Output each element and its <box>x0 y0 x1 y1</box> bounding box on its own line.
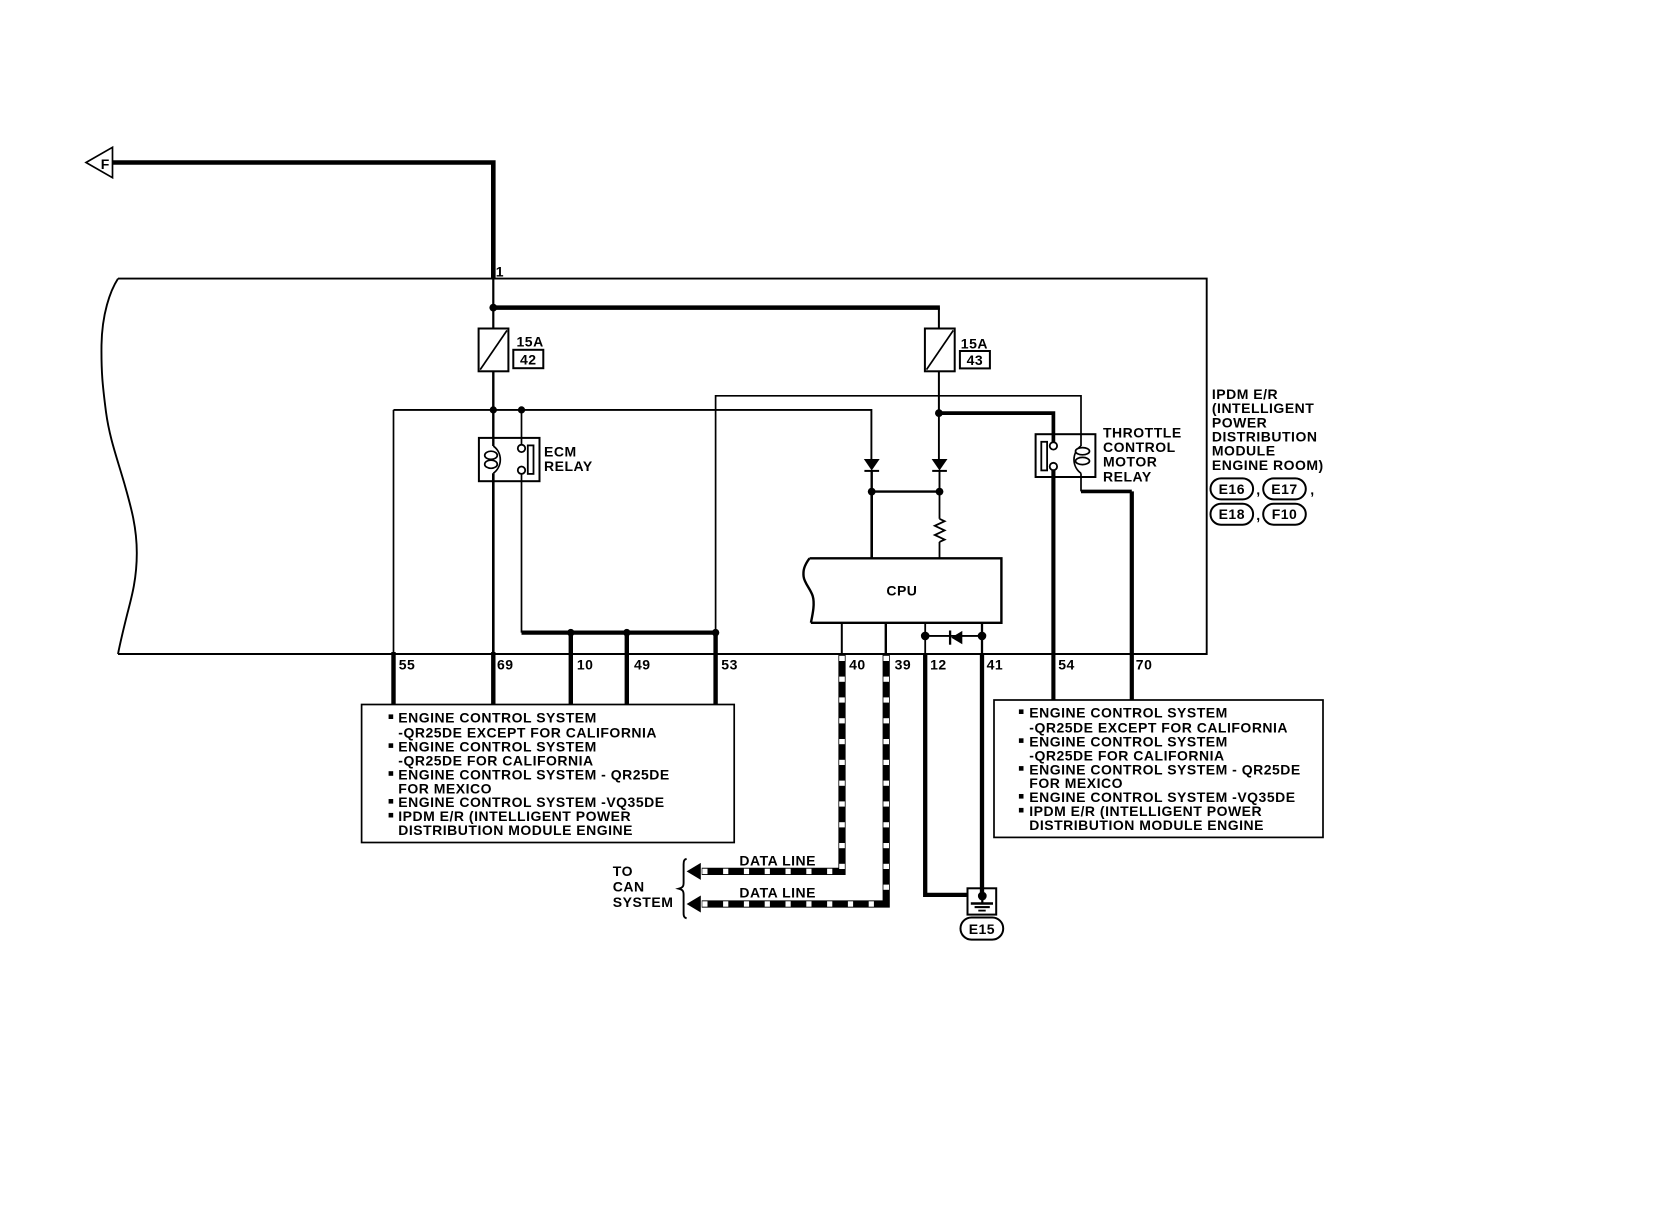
ground box E15 <box>968 888 997 914</box>
junction dot pin49 <box>623 629 630 636</box>
wire pin1 to fuse 42 <box>492 279 494 329</box>
svg-text:F10: F10 <box>1272 506 1298 522</box>
note box left text <box>389 709 670 838</box>
junction dot at fuse bus <box>489 304 497 312</box>
note box right text <box>1019 704 1301 833</box>
wire pin 53 <box>713 633 717 705</box>
wire D2 to junction <box>939 471 941 492</box>
wire battery feed from F to pin 1 <box>113 163 494 280</box>
svg-text:1: 1 <box>496 264 504 280</box>
junction dot throttle feed <box>935 409 943 417</box>
svg-text:DATA LINE: DATA LINE <box>739 853 816 869</box>
svg-text:69: 69 <box>497 656 514 672</box>
svg-text:40: 40 <box>849 656 866 672</box>
svg-text:43: 43 <box>967 352 984 368</box>
relay ECM <box>479 438 540 481</box>
svg-text:E16: E16 <box>1219 481 1245 497</box>
wire ECM contact down <box>521 474 523 633</box>
svg-text:SYSTEM: SYSTEM <box>613 894 674 910</box>
wire rail to ECM contact <box>521 410 523 445</box>
wire pin 10 <box>569 633 573 705</box>
wire rail y410 to diode D1 <box>394 410 872 460</box>
junction dot 41 <box>978 632 987 641</box>
wire fuse bus <box>493 305 940 310</box>
svg-text:42: 42 <box>520 352 537 368</box>
junction dot D1 <box>868 488 876 496</box>
wire bus to fuse 43 <box>938 308 940 329</box>
svg-text:E15: E15 <box>969 921 995 937</box>
connector arrow F <box>86 147 113 177</box>
junction dot 12 <box>921 632 930 641</box>
label box 42 <box>513 350 543 368</box>
svg-text:41: 41 <box>987 656 1004 672</box>
svg-text:,: , <box>1310 482 1314 498</box>
relay throttle control motor <box>1036 434 1096 477</box>
junction dot pin53 <box>712 629 719 636</box>
CPU box U1 <box>803 558 1001 623</box>
resistor R1 <box>935 492 945 559</box>
connector E18 <box>1211 504 1254 525</box>
wire throttle coil to pin 70 <box>1081 473 1132 700</box>
wire CPU pin 39 <box>885 623 887 654</box>
junction dot contact feed <box>518 406 525 413</box>
svg-text:10: 10 <box>577 656 594 672</box>
wire fuse 42 to ECM relay coil <box>492 371 494 446</box>
junction dot pin10 <box>567 629 574 636</box>
svg-text:CONTROL: CONTROL <box>1103 439 1176 455</box>
note box left <box>362 705 735 843</box>
svg-text:TO: TO <box>613 863 633 879</box>
IPDM E/R module box <box>101 279 1206 654</box>
wire pin 39 CAN data line <box>702 654 889 907</box>
wire pin 49 <box>625 633 629 705</box>
label ECM RELAY <box>544 443 593 474</box>
wire pin 41 to ground <box>980 654 984 896</box>
svg-text:RELAY: RELAY <box>1103 469 1152 485</box>
svg-text:E18: E18 <box>1219 506 1245 522</box>
diode D2 <box>932 459 947 471</box>
svg-text:12: 12 <box>930 656 947 672</box>
svg-text:15A: 15A <box>517 334 544 350</box>
svg-text:ECM: ECM <box>544 443 577 459</box>
wire CPU pin 41 <box>981 623 983 654</box>
fuse 42 <box>479 329 509 372</box>
svg-text:DATA LINE: DATA LINE <box>739 884 816 900</box>
label box 43 <box>960 351 990 368</box>
svg-text:DISTRIBUTION MODULE ENGINE: DISTRIBUTION MODULE ENGINE <box>1029 817 1264 833</box>
label TO CAN SYSTEM <box>613 863 674 910</box>
junction dot coil feed <box>490 406 497 413</box>
label IPDM E/R <box>1212 386 1324 473</box>
wire ECM coil to pin 69 <box>492 473 495 704</box>
wire pin 55 <box>393 410 395 705</box>
arrow data line 1 <box>687 863 701 880</box>
svg-text:DISTRIBUTION MODULE ENGINE: DISTRIBUTION MODULE ENGINE <box>398 822 633 838</box>
wire throttle contact to pin 54 <box>1051 470 1055 700</box>
svg-text:ENGINE CONTROL SYSTEM: ENGINE CONTROL SYSTEM <box>1029 704 1227 720</box>
wire rail y632 <box>522 630 716 634</box>
note box right <box>994 700 1323 837</box>
svg-text:ENGINE ROOM): ENGINE ROOM) <box>1212 457 1324 473</box>
wire junction to throttle contact <box>939 413 1054 445</box>
svg-text:54: 54 <box>1058 656 1075 672</box>
svg-text:CAN: CAN <box>613 879 645 895</box>
wire junction to diode D2 <box>938 413 940 459</box>
wire fuse 43 to throttle contact junction <box>938 371 940 413</box>
diode D3 <box>950 631 962 645</box>
diode D1 <box>864 459 879 471</box>
svg-text:49: 49 <box>634 656 651 672</box>
junction dot D2 <box>936 488 944 496</box>
svg-text:E17: E17 <box>1271 481 1297 497</box>
fuse 43 <box>925 329 955 372</box>
wire link 12-41 <box>925 635 982 637</box>
svg-text:53: 53 <box>721 656 738 672</box>
svg-text:ENGINE CONTROL SYSTEM: ENGINE CONTROL SYSTEM <box>398 709 596 725</box>
connector E15 <box>961 918 1004 940</box>
wire CPU pin 40 <box>841 623 843 654</box>
wire diode junction rail <box>872 490 940 492</box>
svg-text:55: 55 <box>399 656 416 672</box>
wire riser to throttle relay coil <box>716 396 1081 633</box>
wire D1 junction to CPU <box>870 492 873 559</box>
connector E17 <box>1263 478 1306 499</box>
label THROTTLE CONTROL MOTOR RELAY <box>1103 425 1182 485</box>
wire CPU pin 12 <box>924 623 926 654</box>
arrow data line 2 <box>687 896 701 913</box>
svg-text:,: , <box>1256 482 1260 498</box>
connector F10 <box>1263 504 1306 525</box>
svg-text:CPU: CPU <box>886 582 917 598</box>
svg-text:RELAY: RELAY <box>544 458 593 474</box>
wire pin 12 to ground <box>925 654 967 895</box>
svg-text:MOTOR: MOTOR <box>1103 454 1157 470</box>
wire pin 40 CAN data line <box>702 654 845 874</box>
svg-text:,: , <box>1256 507 1260 523</box>
ground symbol <box>971 892 993 911</box>
svg-text:F: F <box>101 156 110 172</box>
svg-text:15A: 15A <box>961 336 988 352</box>
svg-text:39: 39 <box>895 656 912 672</box>
wire D1 to junction <box>871 471 873 492</box>
brace to CAN system <box>679 859 687 919</box>
connector E16 <box>1211 478 1254 499</box>
svg-text:70: 70 <box>1136 656 1153 672</box>
